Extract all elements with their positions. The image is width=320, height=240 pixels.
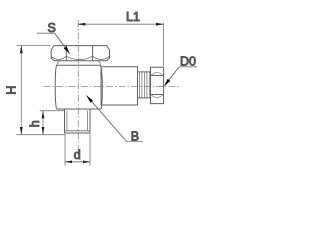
svg-text:h: h [28, 120, 42, 127]
label B arrowhead [86, 95, 93, 103]
hex nut face line left [65, 46, 67, 61]
label B leader [90, 99, 127, 141]
h arrow bottom [42, 127, 45, 135]
svg-text:L1: L1 [126, 10, 140, 24]
thread section top/bottom edges [138, 72, 151, 98]
H arrow top [20, 45, 23, 53]
label D0 leader [168, 67, 180, 82]
h extension line top [40, 110, 64, 112]
dimension H line [20, 46, 22, 135]
dimension d line [65, 161, 90, 163]
L1 arrow right [156, 23, 164, 26]
hex side chamfer arcs [151, 73, 163, 98]
body-stem junction line [100, 67, 102, 105]
hex nut face line right [92, 46, 94, 61]
L1 arrow left [77, 23, 85, 26]
label D0 arrowhead [164, 79, 171, 87]
svg-text:H: H [5, 86, 19, 95]
thread hatch lines [139, 72, 149, 98]
hex nut bottom chamfer arcs [51, 56, 110, 60]
label S leader [55, 33, 68, 50]
body neck arc right [98, 61, 101, 65]
H extension line top [17, 45, 51, 47]
svg-text:D0: D0 [180, 54, 196, 68]
dimension d extension left [64, 134, 66, 166]
H arrow bottom [20, 127, 23, 135]
label S underline [37, 32, 55, 34]
L1 right extension line [163, 23, 165, 66]
stud thread minor lines [67, 111, 88, 131]
label D0 underline [179, 66, 197, 68]
hex side view right [151, 67, 164, 103]
h arrow top [42, 110, 45, 118]
dimension d extension right [89, 134, 91, 166]
stud thread relief line [65, 130, 91, 132]
vertical centerline [77, 20, 79, 159]
d arrow left [65, 161, 72, 164]
dimension L1 line [78, 23, 164, 25]
body (banjo ball with flats) [55, 65, 102, 109]
hex nut top outline [51, 46, 109, 61]
svg-text:d: d [74, 148, 81, 162]
H extension line bottom [17, 134, 65, 136]
hex side face lines [151, 76, 164, 95]
stud right edge [89, 109, 91, 133]
label B underline [127, 140, 144, 142]
body neck arc left [57, 61, 60, 65]
dimension h line [42, 111, 44, 135]
stud left edge [64, 109, 66, 133]
horizontal centerline [44, 86, 181, 88]
d arrow right [83, 161, 90, 164]
stem cylinder [101, 67, 138, 105]
stud bottom edge [65, 132, 91, 134]
label S arrowhead [64, 46, 70, 54]
